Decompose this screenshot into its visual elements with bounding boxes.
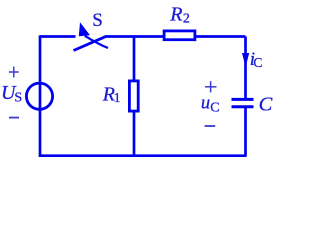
svg-text:S: S <box>92 10 103 31</box>
svg-text:C: C <box>210 101 219 116</box>
svg-text:2: 2 <box>183 12 190 27</box>
svg-text:C: C <box>253 55 262 70</box>
svg-text:C: C <box>259 94 273 116</box>
svg-text:1: 1 <box>114 91 121 106</box>
svg-text:u: u <box>201 93 210 113</box>
svg-text:S: S <box>14 91 22 106</box>
svg-text:R: R <box>169 4 182 26</box>
